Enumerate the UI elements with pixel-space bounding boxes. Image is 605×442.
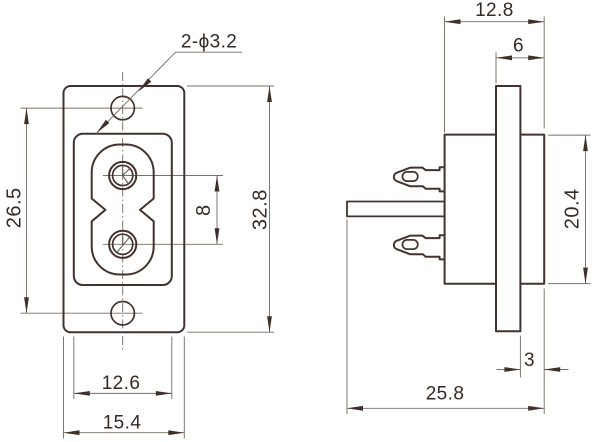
- top mounting hole: [111, 96, 134, 119]
- connector body: [445, 135, 545, 284]
- terminal 2 oval hole: [402, 240, 417, 249]
- arrow 6 left: [496, 55, 512, 60]
- arrow 15.4 right: [168, 430, 184, 435]
- dimension 26.5 line: [26, 108, 28, 313]
- centerline top pin / 8 extension top: [103, 175, 223, 177]
- dimension 32.8 extensions: [187, 86, 274, 332]
- svg-text:32.8: 32.8: [250, 189, 272, 230]
- arrow 8 bottom: [215, 228, 220, 244]
- dimension 20.4 extensions: [548, 135, 591, 284]
- dimension 6 line: [496, 57, 544, 59]
- dimension 12.6 line: [74, 392, 172, 394]
- arrow 8 top: [215, 176, 220, 192]
- svg-text:12.8: 12.8: [475, 0, 514, 21]
- solder terminal pin 1: [394, 167, 445, 191]
- svg-text:6: 6: [513, 35, 524, 56]
- dimension 20.4 line: [585, 135, 587, 284]
- centerline top mounting hole / 26.5 extension top: [21, 107, 143, 109]
- arrow 15.4 left: [64, 430, 80, 435]
- dimension 12.8 extensions: [445, 17, 545, 133]
- dimension 12.8 line: [445, 21, 545, 23]
- terminal 1 oval hole: [402, 172, 417, 181]
- pin 1 outer circle: [109, 162, 136, 189]
- pin 2 inner circle: [113, 234, 133, 254]
- arrow 20.4 top: [583, 135, 588, 151]
- centerline vertical front view: [122, 72, 124, 350]
- arrow 12.8 left: [445, 19, 461, 24]
- outer flange rounded rectangle: [64, 86, 185, 332]
- dimension 8 line: [216, 176, 218, 245]
- pin 2 radial marks: [117, 234, 130, 252]
- dimension 25.8 extension: [346, 220, 348, 415]
- flange plate (side): [496, 86, 520, 331]
- arrow 32.8 top: [267, 86, 272, 102]
- inner recess rounded rectangle: [74, 134, 172, 285]
- arrow 3 right (pointing left): [544, 367, 560, 372]
- centerline bottom mounting hole / 26.5 extension bottom: [21, 312, 143, 314]
- arrow 12.8 right: [528, 19, 544, 24]
- leader arrowhead upper: [139, 78, 152, 91]
- svg-text:26.5: 26.5: [3, 187, 25, 228]
- pin 1 inner circle: [113, 165, 133, 185]
- figure-8 socket cutout: [92, 145, 154, 275]
- arrow 26.5 bottom: [24, 297, 29, 313]
- solder terminal pin 2: [394, 235, 445, 259]
- arrow 25.8 right: [528, 406, 544, 411]
- leader arrowhead lower: [97, 120, 110, 133]
- arrow 25.8 left: [347, 406, 363, 411]
- svg-text:15.4: 15.4: [103, 413, 142, 434]
- dimension 15.4 extensions: [64, 337, 185, 439]
- arrow 12.6 right: [156, 391, 172, 396]
- dimension 3 lines: [497, 369, 569, 371]
- svg-text:8: 8: [193, 204, 215, 216]
- arrow 3 left (pointing right): [504, 367, 520, 372]
- dimension 32.8 line: [269, 86, 271, 332]
- arrow 32.8 bottom: [267, 316, 272, 332]
- dimension 3 extensions: [520, 289, 544, 415]
- bottom mounting hole: [111, 302, 134, 325]
- arrow 26.5 top: [24, 108, 29, 124]
- dimension 25.8 line: [347, 407, 544, 409]
- svg-text:12.6: 12.6: [102, 373, 141, 394]
- pin 1 radial marks: [123, 166, 130, 184]
- dimension 6 extension: [495, 53, 497, 84]
- svg-text:20.4: 20.4: [561, 188, 583, 229]
- arrow 20.4 bottom: [583, 268, 588, 284]
- centerline bottom pin / 8 extension bottom: [103, 243, 223, 245]
- dimension 15.4 line: [64, 432, 185, 434]
- svg-text:2-ϕ3.2: 2-ϕ3.2: [181, 32, 237, 53]
- center mounting bar: [347, 202, 445, 217]
- arrow 6 right: [528, 55, 544, 60]
- leader 2-phi3.2: [96, 52, 242, 133]
- svg-text:3: 3: [524, 350, 535, 371]
- pin 2 outer circle: [109, 231, 136, 258]
- arrow 12.6 left: [74, 391, 90, 396]
- dimension 12.6 extensions: [74, 337, 172, 400]
- svg-text:25.8: 25.8: [426, 383, 465, 404]
